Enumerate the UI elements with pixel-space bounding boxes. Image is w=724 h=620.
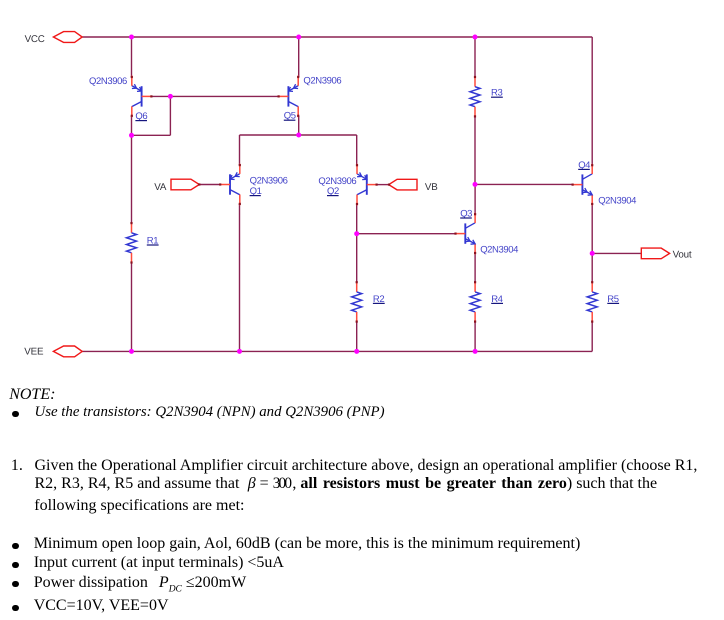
power port VCC [53,32,82,43]
junction VEE/Q1 [237,349,242,354]
note bullet dot [12,411,18,417]
wire Vout node to R5 [591,253,593,282]
wire R4 to VEE [474,322,476,352]
NOTE heading [9,387,55,403]
wire R1 to VEE [131,263,133,352]
wire VA to Q1 base [199,184,219,186]
junction VCC/Q6 [129,35,134,40]
wire VCC rail [82,36,592,38]
svg-text:VB: VB [425,182,438,193]
svg-text:Q2N3906: Q2N3906 [89,76,127,87]
junction VEE/R1 [129,349,134,354]
wire Q1 collector to VEE [239,204,241,352]
circuit schematic: two-stage op-amp [0,0,724,400]
wire Vout node to port [592,252,641,254]
port Vout [641,248,669,259]
wire node to Q4 base [475,183,572,185]
transistor Q2 Q2N3906 (PNP) [357,164,377,206]
junction VCC/Q5 [296,35,301,40]
pin-end dot VA port [198,183,200,185]
resistor R3 [470,77,480,116]
power port VEE [53,346,82,357]
note bullet text [35,405,385,420]
wire R3 to node [474,116,476,184]
wire VCC to R3 [474,37,476,77]
wire VCC to Q4 collector [591,37,593,165]
junction VEE/R2 [354,349,359,354]
svg-text:VA: VA [154,182,167,193]
svg-text:Q2N3904: Q2N3904 [480,244,518,255]
pin-end dot VB port [388,184,390,186]
wire Q2 collector to Q3 base [357,233,456,235]
wire Q5 collector to tail [298,116,300,135]
resistor R4 [470,282,480,321]
spec bullets [12,543,18,549]
wire tail bus [240,134,357,136]
wire VEE rail [82,350,592,352]
wire VCC to Q5 emitter [298,37,300,77]
junction VEE/R4 [473,349,478,354]
svg-text:VEE: VEE [24,347,44,358]
transistor Q3 Q2N3904 (NPN) [456,213,476,255]
transistor Q5 Q2N3906 (PNP) [279,76,299,118]
wire Q6 collector down [131,116,133,223]
wire R2 to VEE [356,322,358,352]
junction VCC/R3 [473,35,478,40]
wire mirror loop vertical [169,96,171,135]
wire tail to Q1 emitter [239,135,241,165]
transistor Q1 Q2N3906 (PNP) [220,164,240,206]
port VA [171,179,199,190]
wire Q6 base to Q5 base [151,95,279,97]
svg-text:Q2N3904: Q2N3904 [598,196,636,207]
port VB [389,179,417,190]
transistor Q4 Q2N3904 (NPN) [573,164,593,206]
numbered item 1 [11,458,23,474]
wire tail to Q2 emitter [356,135,358,165]
wire Q2 collector down [356,204,358,282]
wire Q4 emitter to Vout node [591,204,593,253]
wire R5 to VEE [591,322,593,352]
junction tail node [296,133,301,138]
wire mirror loop horizontal [132,134,171,136]
junction Q2/Q3 node [354,231,359,236]
junction Q6 collector node [129,133,134,138]
svg-text:Q2N3906: Q2N3906 [303,76,341,87]
wire VCC to Q6 emitter [131,37,133,77]
wire node to Q3 collector [474,184,476,214]
junction mirror bases [168,94,173,99]
wire Q3 emitter to R4 [474,253,476,282]
junction Vout node [590,251,595,256]
svg-text:VCC: VCC [25,34,45,45]
resistor R5 [587,282,597,321]
junction R3/Q3/Q4 node [473,182,478,187]
resistor R2 [352,282,362,321]
svg-text:Vout: Vout [673,250,692,261]
wire Q2 base to VB [377,184,389,186]
transistor Q6 Q2N3906 (PNP) [132,76,152,118]
resistor R1 [127,223,137,262]
